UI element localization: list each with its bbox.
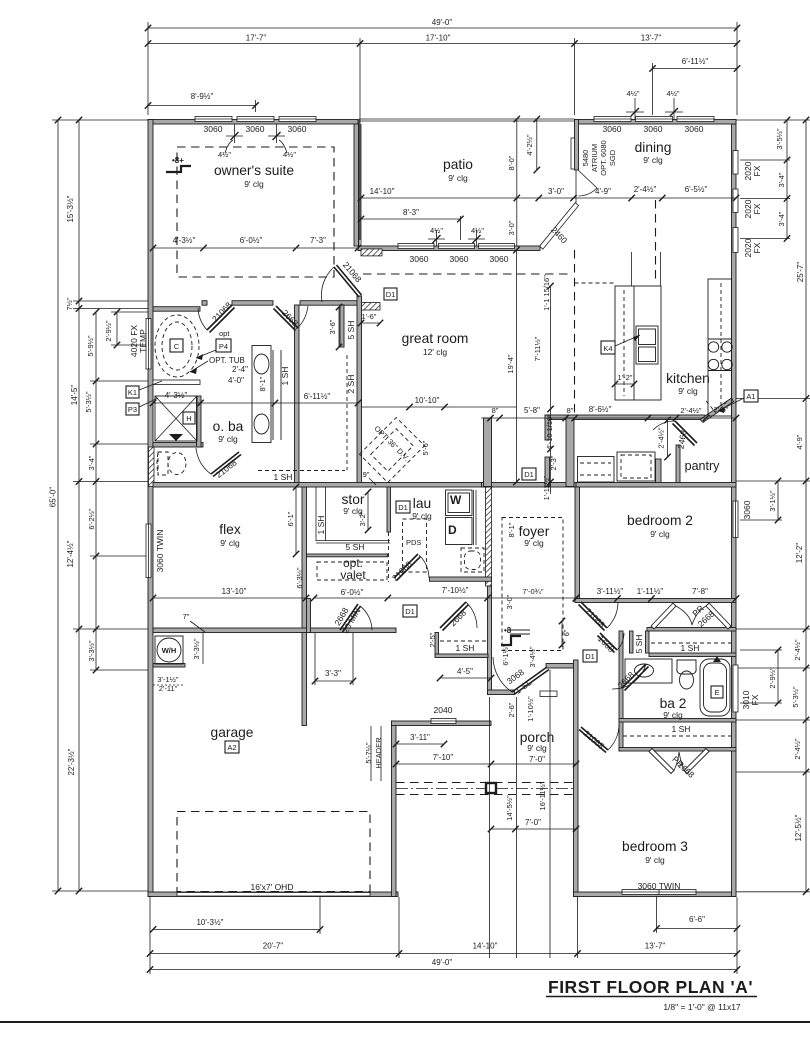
dim row 8 / 5'-8 / 8 / 8'-6 1/2 hall bbox=[481, 405, 739, 421]
svg-text:4'-3½": 4'-3½" bbox=[165, 391, 188, 400]
attic access bath hall bbox=[510, 630, 530, 634]
interior dim 3'-0 / 4'-9 / 2'-4 1/2 / 6'-5 1/2 dining row bbox=[539, 185, 739, 201]
svg-text:8'-1": 8'-1" bbox=[258, 376, 267, 391]
svg-text:opt: opt bbox=[219, 329, 230, 338]
dimension 13'-7" top bbox=[575, 34, 741, 47]
svg-text:4½": 4½" bbox=[283, 150, 296, 159]
svg-text:5'-9½": 5'-9½" bbox=[86, 335, 95, 357]
dimension 14'-10" bottom bbox=[399, 942, 581, 957]
svg-text:13'-10": 13'-10" bbox=[222, 587, 247, 596]
kitchen-pantry south wall bbox=[545, 415, 705, 420]
garage door opening line 16x7 OHD bbox=[177, 893, 370, 897]
exterior wall flex front bbox=[392, 721, 492, 726]
svg-text:14'-10": 14'-10" bbox=[473, 942, 498, 951]
svg-text:SGD: SGD bbox=[608, 149, 617, 166]
window 2040 flex front bbox=[431, 719, 456, 724]
window 3060 dining 1 bbox=[594, 117, 631, 122]
sheet bottom rule bbox=[0, 1021, 810, 1023]
kitchen island bbox=[615, 252, 661, 400]
svg-text:1 SH: 1 SH bbox=[274, 472, 293, 482]
svg-text:20'-7": 20'-7" bbox=[263, 942, 284, 951]
dimension inner column left bbox=[84, 309, 99, 673]
garage dim 7" bbox=[183, 612, 205, 632]
svg-text:8'-0": 8'-0" bbox=[507, 155, 516, 170]
door 21068 laundry bbox=[394, 554, 429, 581]
svg-text:foyer: foyer bbox=[519, 524, 550, 539]
wall diagonal 2460 window wall bbox=[540, 203, 579, 249]
svg-text:4½": 4½" bbox=[666, 89, 679, 98]
witness lines left bbox=[52, 120, 153, 891]
svg-text:2040: 2040 bbox=[434, 705, 453, 715]
svg-text:17'-10": 17'-10" bbox=[426, 34, 451, 43]
svg-text:7'-0": 7'-0" bbox=[525, 818, 541, 827]
svg-text:3'-3": 3'-3" bbox=[325, 669, 341, 678]
W/H closet walls bbox=[153, 664, 185, 668]
svg-text:9' clg: 9' clg bbox=[524, 538, 544, 548]
svg-text:D1: D1 bbox=[398, 503, 408, 512]
exterior wall east bbox=[732, 120, 737, 897]
closet divider wall bbox=[340, 305, 344, 347]
svg-text:3'-3½": 3'-3½" bbox=[87, 640, 96, 662]
door PR2668 bedroom3 closet bbox=[649, 749, 709, 774]
svg-text:3'-2": 3'-2" bbox=[358, 511, 367, 526]
exterior wall foyer front bbox=[488, 690, 515, 695]
witness line x255.5 bbox=[255, 100, 257, 112]
window 4020 FX TEMP owner bath bbox=[146, 319, 151, 370]
dimension 13'-7" bottom bbox=[578, 942, 741, 957]
window 3060 owner suite 1 bbox=[195, 117, 232, 122]
great room / foyer south wall bbox=[482, 483, 580, 488]
dim 1'-6 great room wall bbox=[358, 312, 383, 326]
svg-text:7": 7" bbox=[183, 612, 190, 621]
svg-text:1'-10½": 1'-10½" bbox=[526, 696, 535, 722]
svg-text:garage: garage bbox=[211, 725, 254, 740]
svg-text:5'-3½": 5'-3½" bbox=[791, 686, 800, 708]
svg-text:1'-2": 1'-2" bbox=[618, 373, 633, 382]
dimension 3'-1 1/2" bedroom2 window bbox=[768, 478, 781, 523]
svg-text:3060 TWIN: 3060 TWIN bbox=[638, 881, 681, 891]
window 2020 FX east 3 bbox=[733, 228, 738, 253]
dimension window column right bbox=[775, 117, 790, 242]
owner's suite east wall bbox=[354, 124, 359, 246]
svg-text:5 SH: 5 SH bbox=[346, 542, 365, 552]
dimension 6'-11 1/2" dining bbox=[649, 57, 740, 72]
witness lines right bbox=[736, 120, 810, 892]
svg-text:9' clg: 9' clg bbox=[645, 855, 665, 865]
flex north wall bbox=[153, 483, 493, 488]
svg-text:6'-11½": 6'-11½" bbox=[682, 57, 709, 66]
svg-text:P3: P3 bbox=[128, 405, 137, 414]
dashed dining-kitchen line bbox=[655, 200, 657, 284]
bath2 toilet bbox=[677, 660, 696, 689]
svg-text:3'-1½": 3'-1½" bbox=[768, 490, 777, 512]
svg-text:8'-6½": 8'-6½" bbox=[589, 405, 612, 414]
svg-text:TEMP: TEMP bbox=[138, 329, 148, 353]
svg-text:bedroom 3: bedroom 3 bbox=[622, 839, 688, 854]
svg-text:2'-9½": 2'-9½" bbox=[768, 667, 777, 689]
svg-text:PDS: PDS bbox=[406, 538, 421, 547]
atrium door swing line bbox=[578, 170, 597, 188]
svg-text:3060: 3060 bbox=[603, 124, 622, 134]
bedroom3 closet south wall bbox=[619, 748, 736, 752]
door 3068 1-SL front entry bbox=[493, 657, 549, 695]
dimension 65'-0" left bbox=[49, 117, 62, 894]
kitchen counter east bbox=[706, 279, 732, 416]
svg-text:3'-0": 3'-0" bbox=[548, 187, 564, 196]
dimension 8'-9 1/2" owner suite windows bbox=[145, 92, 259, 109]
door 21068 o.ba hall bbox=[198, 305, 235, 333]
svg-text:13'-7": 13'-7" bbox=[645, 942, 666, 951]
foyer dim 7'-10 1/2 bbox=[311, 586, 579, 601]
dim 3'-6 rotated closet bbox=[328, 304, 342, 350]
svg-text:2'-3": 2'-3" bbox=[549, 455, 558, 470]
step icon foyer bbox=[501, 626, 521, 645]
svg-text:4'-2½": 4'-2½" bbox=[525, 134, 534, 156]
svg-text:2'-4½": 2'-4½" bbox=[793, 639, 802, 661]
flex east wall bbox=[302, 487, 307, 726]
vertical dim 8'-0 patio bbox=[507, 116, 520, 201]
header label garage bbox=[364, 726, 383, 781]
svg-text:8": 8" bbox=[567, 406, 574, 415]
owner's suite south wall bbox=[202, 301, 207, 306]
window 3060 owner suite 2 bbox=[237, 117, 274, 122]
door 1668 hall closet bbox=[598, 633, 625, 653]
svg-text:•8+: •8+ bbox=[172, 156, 184, 165]
svg-text:patio: patio bbox=[443, 157, 473, 172]
dimension 17'-7" top bbox=[145, 34, 363, 47]
svg-text:lau: lau bbox=[413, 496, 431, 511]
svg-text:8'-3": 8'-3" bbox=[403, 208, 419, 217]
exterior wall dining north bbox=[575, 120, 737, 125]
svg-text:3060: 3060 bbox=[685, 124, 704, 134]
svg-text:49'-0": 49'-0" bbox=[432, 958, 453, 967]
svg-text:3'-5½": 3'-5½" bbox=[775, 128, 784, 150]
svg-text:7'-10": 7'-10" bbox=[433, 753, 454, 762]
porch dim 7'-0 line bbox=[491, 761, 579, 767]
svg-text:5480: 5480 bbox=[581, 150, 590, 167]
toilet WC dashed bbox=[157, 452, 186, 475]
laundry toilet dashed bbox=[461, 548, 484, 572]
svg-text:pantry: pantry bbox=[685, 459, 720, 473]
stor-lau wall dashed opening bbox=[387, 487, 391, 532]
svg-text:6'-5½": 6'-5½" bbox=[685, 185, 708, 194]
hall north wall kitchen side bbox=[620, 483, 648, 488]
svg-text:dining: dining bbox=[635, 140, 672, 155]
hatch wall piece great room west lower bbox=[361, 303, 380, 311]
svg-text:4'-3½": 4'-3½" bbox=[173, 236, 196, 245]
vertical dim 2'-4 1/2 pantry bbox=[657, 417, 671, 460]
window 3060 dining 3 bbox=[677, 117, 714, 122]
svg-text:2'-4½": 2'-4½" bbox=[680, 406, 702, 415]
cooktop burners bbox=[708, 342, 718, 352]
svg-text:6'-0½": 6'-0½" bbox=[240, 236, 263, 245]
stor dim 3'-2 bbox=[358, 489, 371, 533]
svg-text:6'-11½": 6'-11½" bbox=[304, 392, 331, 401]
exterior wall west bbox=[148, 120, 153, 897]
svg-text:3'-0": 3'-0" bbox=[507, 220, 516, 235]
witness line x652.5 bbox=[652, 63, 654, 115]
linen wall bbox=[649, 653, 736, 657]
svg-text:K4: K4 bbox=[603, 344, 612, 353]
label OPT. TUB with leader bbox=[190, 356, 245, 374]
dim 2'-4 1/2 pantry row bbox=[0, 0, 1, 1]
box label E bath2 bbox=[711, 686, 723, 698]
owner tub oval dashed bbox=[155, 315, 199, 377]
svg-text:8'-9½": 8'-9½" bbox=[191, 92, 214, 101]
svg-text:6": 6" bbox=[562, 629, 571, 636]
svg-text:1'-11½": 1'-11½" bbox=[637, 587, 664, 596]
box label P4 with opt bbox=[196, 329, 231, 360]
window 3060 bedroom2 east bbox=[733, 501, 738, 538]
svg-text:2'-4½": 2'-4½" bbox=[793, 738, 802, 760]
svg-text:6'-1½": 6'-1½" bbox=[501, 644, 510, 666]
svg-text:4'-9": 4'-9" bbox=[795, 434, 804, 449]
svg-text:FX: FX bbox=[752, 165, 762, 176]
porch dim 7'-0 lower bbox=[488, 818, 579, 832]
svg-text:12'-2": 12'-2" bbox=[795, 543, 804, 564]
interior dims owner suite bottom bbox=[150, 236, 361, 251]
svg-text:3060: 3060 bbox=[204, 124, 223, 134]
tub deck edge bbox=[153, 380, 200, 385]
svg-text:2'-4½": 2'-4½" bbox=[634, 185, 657, 194]
svg-text:3'-4": 3'-4" bbox=[777, 172, 786, 187]
svg-text:16'-11½": 16'-11½" bbox=[538, 781, 547, 810]
box label P3 bbox=[126, 398, 158, 415]
svg-text:6'-1": 6'-1" bbox=[286, 511, 295, 526]
dashed kitchen island top link bbox=[575, 282, 616, 284]
garage dim 3'-3 bbox=[312, 633, 356, 685]
svg-text:3'-0": 3'-0" bbox=[505, 594, 514, 609]
svg-text:4'-9": 4'-9" bbox=[595, 187, 611, 196]
svg-text:7½": 7½" bbox=[65, 297, 74, 310]
dimension 10'-3 1/2" bottom bbox=[150, 918, 323, 933]
dimension 2'-9 1/2" bath window bbox=[768, 647, 781, 706]
pantry corner dashes bbox=[706, 401, 727, 413]
door 21068 bedroom2 hall bbox=[579, 602, 619, 631]
PDS dashed box bbox=[403, 519, 427, 572]
entry closet walls 1SH bbox=[435, 633, 439, 657]
lau south wall bbox=[430, 577, 492, 581]
svg-text:9": 9" bbox=[363, 470, 370, 479]
svg-text:5 SH: 5 SH bbox=[634, 635, 644, 654]
witness line x360 bbox=[359, 38, 361, 240]
atrium door leaf 5480 bbox=[571, 138, 575, 169]
svg-text:3060: 3060 bbox=[450, 254, 469, 264]
exterior wall garage south bbox=[148, 892, 398, 897]
wall mud-pantry bbox=[656, 459, 662, 483]
svg-text:9' clg: 9' clg bbox=[650, 529, 670, 539]
svg-text:3'-1½": 3'-1½" bbox=[157, 675, 179, 684]
dimension 2'-9 1/2" innermost bbox=[104, 309, 120, 348]
valet south shelf wall bbox=[307, 554, 388, 557]
svg-text:valet: valet bbox=[340, 568, 366, 582]
window 3060 dining 2 bbox=[636, 117, 673, 122]
svg-text:16'x7' OHD: 16'x7' OHD bbox=[251, 882, 294, 892]
box label D1 hall bbox=[583, 650, 597, 662]
porch left column line bbox=[489, 697, 491, 958]
svg-text:1'-1 15/16": 1'-1 15/16" bbox=[542, 275, 551, 311]
svg-text:3'-6": 3'-6" bbox=[328, 319, 337, 334]
vertical dim 19'-4 great room bbox=[506, 247, 520, 485]
svg-text:3060: 3060 bbox=[246, 124, 265, 134]
box label K1 bbox=[126, 381, 162, 398]
1SH closet line o.ba bbox=[280, 350, 282, 440]
window 3060 TWIN flex bbox=[146, 524, 151, 578]
o.ba / great room wall bbox=[295, 305, 300, 487]
pantry angled wall bbox=[700, 398, 734, 423]
svg-text:8'-1": 8'-1" bbox=[507, 522, 516, 537]
svg-text:3060: 3060 bbox=[742, 500, 752, 519]
owner's closet east wall bbox=[357, 296, 362, 487]
svg-text:W/H: W/H bbox=[162, 646, 177, 655]
svg-text:D: D bbox=[448, 523, 457, 537]
box label A2 garage bbox=[225, 741, 239, 753]
porch dims 3'-11 / 7'-10 bbox=[393, 733, 494, 767]
dimension 25'-7" right outer bbox=[791, 117, 809, 895]
svg-text:3060: 3060 bbox=[288, 124, 307, 134]
svg-text:D1: D1 bbox=[524, 470, 534, 479]
svg-text:2 SH: 2 SH bbox=[346, 375, 356, 394]
svg-text:owner's suite: owner's suite bbox=[214, 163, 294, 178]
svg-text:1 SH: 1 SH bbox=[672, 724, 691, 734]
svg-text:5'-7½": 5'-7½" bbox=[364, 742, 373, 764]
mud hall cabinet bbox=[617, 452, 655, 481]
door 21068 bedroom3 bbox=[579, 724, 619, 753]
dashed ceiling owner suite bbox=[177, 147, 334, 277]
svg-text:5'-6": 5'-6" bbox=[421, 440, 430, 455]
svg-text:1 SH: 1 SH bbox=[681, 643, 700, 653]
pantry jog wall bbox=[545, 415, 549, 440]
svg-text:D1: D1 bbox=[585, 652, 595, 661]
box label D1 great room bbox=[384, 288, 397, 300]
patio roof line top bbox=[359, 118, 575, 120]
svg-text:3060: 3060 bbox=[644, 124, 663, 134]
dashed valet rect bbox=[317, 562, 387, 580]
svg-text:2'-5": 2'-5" bbox=[428, 632, 437, 647]
bedroom2 north wall bbox=[576, 483, 736, 488]
exterior wall foyer west bbox=[488, 586, 492, 694]
svg-text:stor: stor bbox=[342, 492, 365, 507]
fireplace OPT 36 DV bbox=[359, 417, 424, 482]
foyer side wall east stub bbox=[566, 418, 574, 487]
garage north wall bbox=[153, 628, 396, 633]
svg-text:5'-8": 5'-8" bbox=[524, 406, 540, 415]
svg-text:6'-2½": 6'-2½" bbox=[87, 508, 96, 530]
svg-text:7'-8": 7'-8" bbox=[692, 587, 708, 596]
svg-text:7'-11½": 7'-11½" bbox=[533, 336, 542, 361]
svg-text:9' clg: 9' clg bbox=[218, 434, 238, 444]
svg-text:flex: flex bbox=[219, 522, 241, 537]
front door opening sidelite bbox=[540, 691, 557, 697]
svg-text:kitchen: kitchen bbox=[666, 371, 710, 386]
svg-text:C: C bbox=[174, 342, 180, 351]
door 2668 hall D1 bbox=[440, 602, 477, 631]
flex dim 6'-1 bbox=[286, 484, 299, 557]
box label A1 kitchen bbox=[718, 390, 758, 413]
svg-text:49'-0": 49'-0" bbox=[432, 18, 453, 27]
interior dim 10'-10 great room bbox=[361, 396, 516, 410]
vertical dim 7'-11 1/2 kitchen bbox=[533, 275, 554, 494]
foyer side wall west stub bbox=[484, 418, 492, 487]
hall jog wall lower bbox=[545, 457, 550, 486]
hall closet walls 5SH bbox=[630, 631, 634, 653]
svg-text:3060: 3060 bbox=[410, 254, 429, 264]
window 3060 great room 1 bbox=[398, 244, 434, 249]
garage dims 3'-3 1/2 rotated bbox=[192, 632, 203, 664]
box label K4 kitchen bbox=[601, 335, 640, 354]
svg-text:2'-4": 2'-4" bbox=[232, 365, 248, 374]
witness line left top bbox=[147, 22, 149, 115]
owner vanity bbox=[252, 346, 273, 443]
interior dim 8'-3 bbox=[358, 208, 464, 240]
svg-text:12'-5½": 12'-5½" bbox=[794, 814, 803, 841]
o.ba dims 2'-4 / 4'-0 bbox=[150, 365, 361, 406]
bedroom2 south wall bbox=[575, 599, 736, 603]
svg-text:FX: FX bbox=[752, 242, 762, 253]
bath2 tub bbox=[700, 656, 730, 716]
window 3060 owner suite 3 bbox=[279, 117, 316, 122]
svg-text:7'-10½": 7'-10½" bbox=[441, 586, 468, 595]
svg-text:D1: D1 bbox=[405, 607, 415, 616]
svg-text:3'-11": 3'-11" bbox=[410, 733, 430, 742]
svg-text:19'-4": 19'-4" bbox=[506, 354, 515, 373]
svg-text:4½": 4½" bbox=[218, 150, 231, 159]
bedroom2 closet south wall bbox=[647, 628, 736, 632]
hall stub wall at valet bbox=[307, 599, 311, 633]
hall niche bbox=[578, 457, 615, 483]
stor closet edge lines bbox=[315, 487, 317, 541]
svg-text:9' clg: 9' clg bbox=[448, 173, 468, 183]
interior dim 14'-10 patio bbox=[358, 187, 542, 201]
svg-text:3060: 3060 bbox=[490, 254, 509, 264]
vertical dim 4'-2 1/2 dining bbox=[525, 116, 540, 173]
dimension 20'-7" bottom bbox=[147, 942, 402, 957]
svg-text:17'-7": 17'-7" bbox=[246, 34, 267, 43]
svg-text:3'-4": 3'-4" bbox=[777, 211, 786, 226]
svg-text:6'-6": 6'-6" bbox=[689, 915, 705, 924]
svg-text:W: W bbox=[450, 493, 462, 507]
svg-text:2'-9½": 2'-9½" bbox=[104, 320, 113, 342]
porch beam dashed lines bbox=[396, 783, 576, 795]
svg-text:10'-3½": 10'-3½" bbox=[196, 918, 223, 927]
svg-text:65'-0": 65'-0" bbox=[49, 487, 58, 508]
dashed closet line owner bbox=[346, 355, 348, 470]
window 3060 great room 2 bbox=[439, 244, 475, 249]
svg-text:14'-10": 14'-10" bbox=[370, 187, 395, 196]
door 2668 owner closet bbox=[274, 306, 309, 331]
svg-text:4½": 4½" bbox=[626, 89, 639, 98]
svg-text:6'-3½": 6'-3½" bbox=[295, 567, 304, 589]
hatched wall WC west bbox=[149, 447, 155, 487]
door 2668 20MIN garage entry bbox=[340, 604, 372, 632]
box label D1 garage side bbox=[403, 605, 417, 617]
svg-text:2'-6": 2'-6" bbox=[714, 405, 729, 414]
svg-text:A2: A2 bbox=[227, 743, 236, 752]
svg-text:HEADER: HEADER bbox=[374, 737, 383, 769]
svg-text:ATRIUM: ATRIUM bbox=[590, 144, 599, 172]
dashed foyer ceiling bbox=[502, 518, 563, 651]
door 2668 bath2 bbox=[612, 664, 649, 691]
svg-text:14'-5": 14'-5" bbox=[70, 385, 79, 406]
dimension 17'-10" top bbox=[360, 34, 578, 47]
bath2 west wall bbox=[619, 631, 623, 751]
svg-text:6'-0½": 6'-0½" bbox=[341, 588, 364, 597]
svg-text:1 SH: 1 SH bbox=[456, 643, 475, 653]
svg-text:15'-3½": 15'-3½" bbox=[66, 195, 75, 222]
garage dim 3'-1 1/2 2'-11 bbox=[153, 675, 185, 693]
svg-text:3'-4½": 3'-4½" bbox=[528, 646, 537, 668]
window 2020 FX east 2 bbox=[733, 189, 738, 213]
